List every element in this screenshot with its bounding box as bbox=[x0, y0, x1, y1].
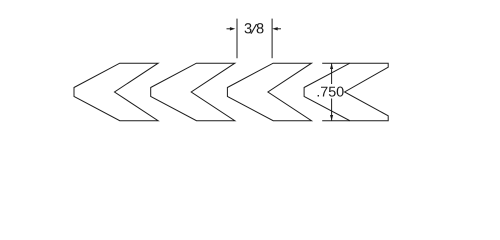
chevron 1 bbox=[74, 63, 158, 120]
dimension 3/8: extension line left bbox=[236, 19, 238, 59]
dimension 3/8: left arrow tail bbox=[227, 28, 231, 30]
dimension 3/8: left arrowhead bbox=[230, 27, 235, 30]
dimension 3/8: right arrow tail bbox=[278, 28, 282, 30]
dimension .750: dim line upper segment bbox=[331, 63, 333, 84]
dimension 3/8: extension line right bbox=[271, 19, 273, 59]
dimension .750: dim line lower segment bbox=[331, 99, 333, 121]
dimension text 3/8 bbox=[245, 23, 264, 34]
dimension 3/8: right arrowhead bbox=[272, 27, 277, 30]
dimension .750: top arrowhead bbox=[330, 63, 333, 69]
dimension text .750 bbox=[318, 87, 344, 97]
chevron 3 bbox=[227, 63, 311, 120]
dimension .750: bottom arrowhead bbox=[330, 115, 333, 121]
chevron 2 bbox=[151, 63, 235, 120]
chevron 4 (right end truncated) bbox=[304, 63, 388, 120]
dimension .750: top extension line bbox=[322, 62, 350, 64]
dimension .750: bottom extension line bbox=[322, 120, 350, 122]
